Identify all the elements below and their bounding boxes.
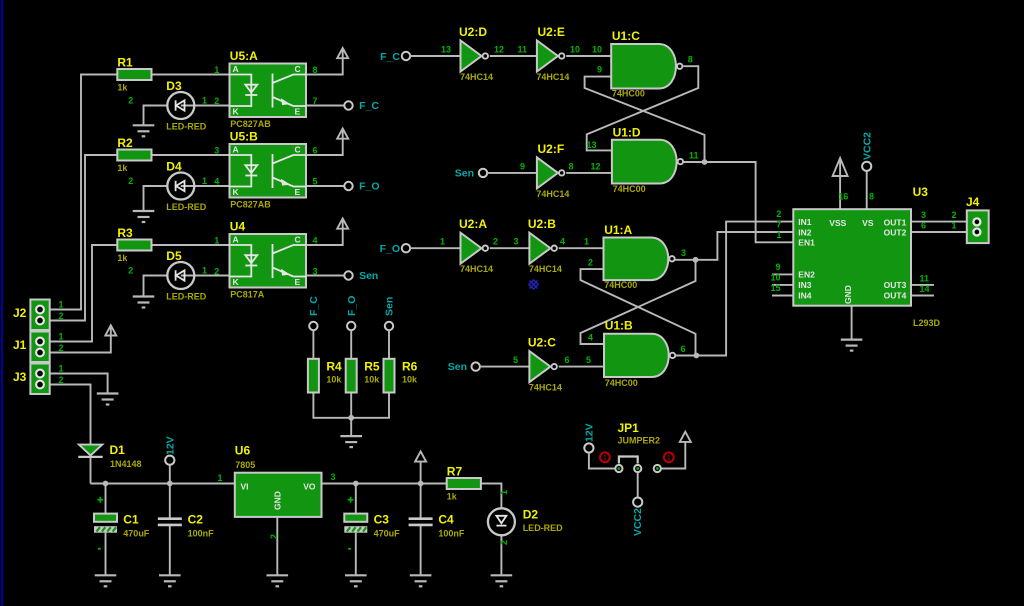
node Sen input pin 2 bbox=[472, 362, 480, 370]
svg-text:U1:A: U1:A bbox=[604, 223, 632, 237]
node F_C input pin bbox=[402, 52, 410, 60]
svg-text:PC827AB: PC827AB bbox=[230, 119, 271, 129]
svg-text:2: 2 bbox=[952, 210, 957, 220]
wire U2:C to U1:B pin5 bbox=[559, 366, 604, 368]
junction bbox=[418, 481, 424, 487]
svg-text:IN3: IN3 bbox=[798, 280, 812, 290]
node Sen bbox=[344, 271, 352, 279]
wire U1:C pin8 to U1:D pin13 bbox=[587, 66, 699, 150]
svg-text:2: 2 bbox=[128, 96, 133, 106]
node Sen pullup pin bbox=[385, 322, 393, 330]
svg-text:8: 8 bbox=[688, 54, 693, 64]
wire U3 VSS to supply bbox=[839, 158, 841, 209]
svg-text:100nF: 100nF bbox=[438, 528, 465, 538]
svg-text:13: 13 bbox=[441, 45, 451, 55]
wire U1:B pin6 output bbox=[674, 355, 697, 357]
wire U2:B to U1:A pin1 bbox=[559, 247, 604, 249]
svg-text:LED-RED: LED-RED bbox=[166, 122, 206, 132]
supply symbol bbox=[833, 158, 848, 176]
wire 12V rail bbox=[91, 483, 235, 485]
wire C2 to ground bbox=[169, 526, 171, 576]
svg-text:R6: R6 bbox=[402, 359, 418, 373]
svg-text:F_O: F_O bbox=[359, 181, 379, 193]
svg-text:A: A bbox=[233, 145, 239, 155]
wire U2:A to U2:B bbox=[490, 247, 530, 249]
wire U1:B output to U3 IN1 bbox=[696, 222, 793, 356]
optocoupler U5:B bbox=[230, 129, 307, 209]
U3 left pin number labels bbox=[776, 209, 781, 240]
svg-text:LED-RED: LED-RED bbox=[523, 523, 563, 533]
svg-text:U1:C: U1:C bbox=[612, 29, 640, 43]
node F_C pullup pin bbox=[309, 322, 317, 330]
svg-text:E: E bbox=[295, 187, 301, 197]
U4 pin labels bbox=[214, 236, 317, 277]
wire D5 to U4 pin K bbox=[181, 275, 230, 277]
supply symbol bbox=[105, 325, 116, 335]
svg-text:74HC14: 74HC14 bbox=[529, 383, 562, 393]
wire U1:C pin9 latch feedback bbox=[585, 77, 705, 162]
ground bbox=[267, 575, 289, 586]
svg-text:C3: C3 bbox=[374, 512, 390, 526]
svg-text:74HC14: 74HC14 bbox=[536, 189, 569, 199]
svg-text:U1:D: U1:D bbox=[613, 126, 641, 140]
svg-text:4: 4 bbox=[313, 236, 318, 246]
svg-text:15: 15 bbox=[770, 283, 780, 293]
svg-text:6: 6 bbox=[565, 355, 570, 365]
svg-text:2: 2 bbox=[214, 267, 219, 277]
wire Sen pin to R6 bbox=[388, 330, 390, 359]
wire U1:A pin2 latch feedback bbox=[581, 269, 696, 355]
wire F_O pin to U2:A bbox=[410, 247, 460, 249]
svg-text:4: 4 bbox=[214, 177, 219, 187]
node VCC2 jumper bbox=[633, 498, 642, 507]
svg-text:2: 2 bbox=[493, 237, 498, 247]
svg-text:5: 5 bbox=[586, 355, 591, 365]
ground bbox=[95, 575, 117, 586]
node 12V bbox=[165, 456, 174, 465]
wire Sen pin to U2:F bbox=[487, 172, 537, 174]
node F_C bbox=[344, 101, 352, 109]
svg-text:74HC00: 74HC00 bbox=[613, 184, 646, 194]
svg-text:1: 1 bbox=[584, 237, 589, 247]
svg-text:4: 4 bbox=[588, 333, 593, 343]
svg-text:1N4148: 1N4148 bbox=[110, 459, 142, 469]
svg-text:OUT1: OUT1 bbox=[884, 217, 907, 227]
NAND gate U1:A bbox=[604, 223, 675, 290]
inverter U2:A bbox=[459, 217, 493, 274]
svg-text:7: 7 bbox=[313, 96, 318, 106]
svg-text:D1: D1 bbox=[110, 443, 126, 457]
wire J2 pin1 to R1 bbox=[40, 75, 117, 310]
svg-text:Sen: Sen bbox=[384, 297, 396, 316]
wire U3 VS to VCC2 bbox=[866, 171, 868, 209]
svg-text:10: 10 bbox=[770, 272, 780, 282]
wire U1:B pin4 latch feedback bbox=[581, 260, 696, 344]
svg-text:6: 6 bbox=[681, 344, 686, 354]
wire R1 to U5:A pin A bbox=[152, 74, 230, 76]
svg-text:J1: J1 bbox=[13, 338, 27, 352]
node Sen input pin bbox=[479, 169, 487, 177]
svg-text:2: 2 bbox=[269, 534, 279, 539]
svg-text:74HC14: 74HC14 bbox=[460, 72, 493, 82]
wire C1 to rail bbox=[105, 484, 107, 514]
svg-text:3: 3 bbox=[313, 267, 318, 277]
svg-text:74HC00: 74HC00 bbox=[612, 89, 645, 99]
optocoupler U4 bbox=[230, 219, 307, 299]
svg-text:R5: R5 bbox=[364, 359, 380, 373]
svg-text:3: 3 bbox=[331, 472, 336, 482]
ground bbox=[841, 340, 863, 351]
svg-text:JP1: JP1 bbox=[618, 421, 640, 435]
svg-text:C2: C2 bbox=[188, 512, 204, 526]
svg-text:5: 5 bbox=[513, 355, 518, 365]
wire U4 pin4 to supply bbox=[306, 219, 343, 246]
svg-text:1: 1 bbox=[59, 300, 64, 310]
svg-text:J4: J4 bbox=[966, 195, 980, 209]
svg-text:D5: D5 bbox=[166, 249, 182, 263]
inverter U2:E bbox=[536, 25, 569, 82]
J3 pin labels bbox=[59, 364, 64, 386]
wire U1:D output to U3 EN1 bbox=[705, 162, 794, 242]
svg-text:6: 6 bbox=[921, 221, 926, 231]
wire U6 VO rail to R7 bbox=[322, 483, 448, 485]
svg-text:R3: R3 bbox=[117, 226, 133, 240]
svg-text:2: 2 bbox=[588, 258, 593, 268]
wire U4 pin3 to Sen pin bbox=[306, 275, 344, 277]
LED D4 bbox=[166, 160, 206, 213]
svg-text:11: 11 bbox=[920, 273, 930, 283]
svg-text:VCC2: VCC2 bbox=[632, 508, 644, 536]
ground bbox=[159, 575, 181, 586]
svg-text:U5:A: U5:A bbox=[230, 49, 258, 63]
svg-text:2: 2 bbox=[128, 266, 133, 276]
svg-text:Sen: Sen bbox=[448, 361, 467, 373]
wire 12V to JP1 pin1 bbox=[589, 453, 615, 469]
wire U5:A pin8 to supply bbox=[306, 48, 343, 75]
svg-text:EN2: EN2 bbox=[798, 270, 815, 280]
ground bbox=[340, 436, 362, 447]
wire D5 cathode to ground bbox=[144, 276, 168, 297]
svg-text:1: 1 bbox=[202, 176, 207, 186]
svg-text:470uF: 470uF bbox=[374, 528, 401, 538]
wire U5:A pin7 to F_C pin bbox=[306, 105, 344, 107]
wire U3 OUT2 to J4 bbox=[911, 231, 967, 233]
wire F_C pin to R4 bbox=[312, 330, 314, 359]
wire C3 to rail bbox=[355, 484, 357, 514]
svg-text:12: 12 bbox=[591, 161, 601, 171]
junction bbox=[167, 481, 173, 487]
wire D2 to ground bbox=[500, 535, 502, 575]
svg-text:D4: D4 bbox=[166, 160, 182, 174]
svg-text:OUT2: OUT2 bbox=[884, 228, 907, 238]
origin marker bbox=[529, 280, 538, 289]
wire J1 pin2 to supply bbox=[40, 325, 111, 352]
wire F_O pin to R5 bbox=[350, 330, 352, 359]
svg-text:F_C: F_C bbox=[359, 100, 379, 112]
capacitor C4 bbox=[409, 512, 465, 538]
wire U5:B pin5 to F_O pin bbox=[306, 185, 344, 187]
NAND gate U1:D bbox=[612, 126, 683, 194]
svg-text:EN1: EN1 bbox=[798, 238, 815, 248]
svg-text:10: 10 bbox=[570, 45, 580, 55]
svg-text:1: 1 bbox=[214, 236, 219, 246]
svg-text:9: 9 bbox=[597, 65, 602, 75]
svg-text:1: 1 bbox=[499, 490, 509, 495]
svg-text:F_O: F_O bbox=[380, 243, 400, 255]
wire J1 pin1 to R3 bbox=[40, 245, 117, 342]
svg-text:IN2: IN2 bbox=[798, 227, 812, 237]
svg-text:C: C bbox=[295, 235, 301, 245]
svg-text:1k: 1k bbox=[117, 253, 128, 263]
junction bbox=[348, 415, 354, 421]
ground bbox=[345, 575, 367, 586]
J1 pin labels bbox=[59, 332, 64, 354]
svg-text:PC827AB: PC827AB bbox=[230, 199, 271, 209]
wire U3 OUT4 stub bbox=[911, 295, 934, 297]
wire U1:A pin3 output bbox=[673, 259, 695, 261]
svg-text:U2:B: U2:B bbox=[528, 217, 556, 231]
svg-text:8: 8 bbox=[569, 161, 574, 171]
svg-text:2: 2 bbox=[499, 540, 509, 545]
svg-text:PC817A: PC817A bbox=[230, 289, 265, 299]
NAND gate U1:C bbox=[611, 29, 682, 99]
node F_O input pin bbox=[402, 244, 410, 252]
svg-text:10k: 10k bbox=[402, 374, 418, 384]
wire U2:D to U2:E bbox=[490, 55, 537, 57]
svg-text:D3: D3 bbox=[166, 79, 182, 93]
junction bbox=[693, 257, 699, 263]
svg-text:12V: 12V bbox=[164, 436, 176, 455]
connector J1 bbox=[13, 332, 50, 363]
svg-text:9: 9 bbox=[520, 161, 525, 171]
NAND gate U1:B bbox=[604, 319, 675, 389]
resistor R6 bbox=[384, 359, 419, 393]
voltage regulator U6 bbox=[235, 444, 322, 517]
wire U5:B pin6 to supply bbox=[306, 129, 343, 156]
inverter U2:F bbox=[536, 142, 569, 199]
svg-text:VCC2: VCC2 bbox=[861, 132, 873, 160]
resistor R4 bbox=[308, 359, 343, 393]
svg-text:2: 2 bbox=[776, 209, 781, 219]
svg-text:R4: R4 bbox=[326, 359, 342, 373]
svg-text:1k: 1k bbox=[117, 163, 128, 173]
svg-text:1: 1 bbox=[59, 364, 64, 374]
jumper JP1 bbox=[615, 421, 661, 472]
svg-text:3: 3 bbox=[514, 237, 519, 247]
svg-text:74HC14: 74HC14 bbox=[460, 264, 493, 274]
wire J3 pin1 to ground bbox=[40, 374, 108, 394]
wire F_C pin to U2:D bbox=[410, 55, 460, 57]
svg-text:VS: VS bbox=[862, 218, 874, 228]
J2 pin labels bbox=[59, 300, 64, 322]
ground bbox=[410, 575, 432, 586]
svg-text:3: 3 bbox=[214, 146, 219, 156]
svg-text:3: 3 bbox=[921, 210, 926, 220]
ground bbox=[97, 394, 119, 405]
svg-text:GND: GND bbox=[843, 285, 853, 304]
svg-text:U3: U3 bbox=[913, 185, 929, 199]
svg-text:1k: 1k bbox=[117, 83, 128, 93]
U5:A pin labels bbox=[214, 65, 317, 106]
svg-text:11: 11 bbox=[518, 45, 528, 55]
svg-text:J3: J3 bbox=[13, 370, 27, 384]
svg-text:9: 9 bbox=[775, 262, 780, 272]
svg-text:16: 16 bbox=[838, 192, 848, 202]
supply symbol bbox=[337, 129, 348, 139]
svg-text:8: 8 bbox=[869, 192, 874, 202]
JP1 pad marker 1 bbox=[600, 452, 610, 462]
wire U3 EN2 stub bbox=[772, 273, 793, 275]
svg-text:74HC14: 74HC14 bbox=[536, 72, 569, 82]
svg-text:E: E bbox=[295, 107, 301, 117]
LED D3 bbox=[166, 79, 206, 132]
svg-text:E: E bbox=[295, 277, 301, 287]
svg-text:2: 2 bbox=[59, 375, 64, 385]
svg-text:2: 2 bbox=[214, 96, 219, 106]
wire C3 to ground bbox=[355, 533, 357, 576]
svg-text:12V: 12V bbox=[583, 423, 595, 442]
svg-text:U2:C: U2:C bbox=[528, 336, 556, 350]
node VCC2 bbox=[862, 162, 871, 171]
svg-text:11: 11 bbox=[689, 151, 699, 161]
inverter U2:D bbox=[459, 25, 493, 82]
wire 12V pin to rail bbox=[169, 465, 171, 484]
ground bbox=[133, 211, 155, 222]
wire R4 R5 R6 common to ground bbox=[313, 393, 389, 418]
supply symbol bbox=[337, 219, 348, 229]
wire R2 to U5:B pin A bbox=[152, 154, 230, 156]
svg-text:10: 10 bbox=[592, 45, 602, 55]
wire C1 to ground bbox=[105, 533, 107, 576]
svg-text:3: 3 bbox=[681, 248, 686, 258]
svg-text:13: 13 bbox=[586, 140, 596, 150]
svg-text:U5:B: U5:B bbox=[230, 129, 258, 143]
resistor R3 bbox=[117, 226, 151, 263]
svg-text:F_C: F_C bbox=[380, 51, 400, 63]
svg-text:1: 1 bbox=[217, 473, 222, 483]
svg-text:U1:B: U1:B bbox=[605, 319, 633, 333]
svg-text:10k: 10k bbox=[364, 374, 380, 384]
svg-text:7805: 7805 bbox=[235, 460, 255, 470]
svg-text:8: 8 bbox=[313, 65, 318, 75]
connector J4 bbox=[966, 195, 989, 243]
wire D4 cathode to ground bbox=[144, 186, 168, 211]
wire R5 to ground bbox=[350, 393, 352, 437]
svg-text:1: 1 bbox=[952, 221, 957, 231]
resistor R5 bbox=[346, 359, 381, 393]
supply symbol bbox=[337, 48, 348, 58]
svg-text:GND: GND bbox=[273, 491, 283, 510]
wire D1 cathode to 12V rail bbox=[90, 457, 92, 484]
junction bbox=[353, 481, 359, 487]
wire C4 to ground bbox=[420, 526, 422, 576]
svg-text:Sen: Sen bbox=[359, 270, 378, 282]
wire Sen pin to U2:C bbox=[480, 366, 530, 368]
wire U3 OUT3 stub bbox=[911, 284, 934, 286]
ground bbox=[491, 575, 513, 586]
ground bbox=[133, 125, 155, 136]
svg-text:A: A bbox=[233, 235, 239, 245]
svg-text:C4: C4 bbox=[438, 512, 454, 526]
svg-text:2: 2 bbox=[128, 176, 133, 186]
svg-text:R1: R1 bbox=[117, 56, 133, 70]
connector J2 bbox=[13, 300, 50, 331]
wire U3 GND to ground bbox=[851, 306, 853, 340]
node F_O bbox=[344, 182, 352, 190]
wire U1:D pin11 output bbox=[683, 161, 704, 163]
wire U2:E to U1:C pin10 bbox=[566, 55, 611, 57]
driver IC U3 bbox=[793, 185, 940, 328]
svg-text:J2: J2 bbox=[13, 306, 27, 320]
resistor R7 bbox=[447, 465, 481, 502]
junction bbox=[103, 481, 109, 487]
svg-text:F_O: F_O bbox=[346, 296, 358, 316]
svg-text:K: K bbox=[233, 107, 240, 117]
svg-text:1: 1 bbox=[776, 230, 781, 240]
svg-text:1: 1 bbox=[59, 332, 64, 342]
svg-text:6: 6 bbox=[313, 146, 318, 156]
wire JP1 pin2 to VCC2 bbox=[637, 473, 639, 498]
LED D2 bbox=[488, 508, 563, 536]
wire C4 top bbox=[420, 484, 422, 519]
svg-text:74HC14: 74HC14 bbox=[529, 264, 562, 274]
wire R3 to U4 pin A bbox=[152, 244, 230, 246]
svg-text:C: C bbox=[295, 64, 301, 74]
svg-text:1: 1 bbox=[202, 96, 207, 106]
svg-text:R7: R7 bbox=[447, 465, 463, 479]
svg-text:4: 4 bbox=[560, 237, 565, 247]
svg-text:K: K bbox=[233, 277, 240, 287]
svg-text:OUT4: OUT4 bbox=[884, 291, 907, 301]
resistor R2 bbox=[117, 136, 151, 173]
svg-text:LED-RED: LED-RED bbox=[166, 202, 206, 212]
svg-text:C1: C1 bbox=[123, 512, 139, 526]
supply symbol bbox=[415, 451, 426, 461]
svg-text:1: 1 bbox=[214, 65, 219, 75]
svg-text:U2:E: U2:E bbox=[538, 25, 565, 39]
U5:B pin labels bbox=[214, 146, 317, 187]
svg-text:JUMPER2: JUMPER2 bbox=[618, 436, 661, 446]
svg-text:1k: 1k bbox=[447, 492, 458, 502]
junction bbox=[694, 353, 700, 359]
wire J3 pin2 to D1 anode bbox=[40, 385, 91, 445]
svg-text:VI: VI bbox=[241, 482, 249, 492]
capacitor C3 bbox=[344, 497, 400, 549]
svg-text:470uF: 470uF bbox=[123, 528, 150, 538]
diode D1 bbox=[78, 443, 141, 469]
svg-text:1: 1 bbox=[202, 266, 207, 276]
wire supply above C4 bbox=[420, 462, 422, 484]
svg-text:7: 7 bbox=[776, 220, 781, 230]
svg-text:74HC00: 74HC00 bbox=[605, 378, 638, 388]
svg-text:Sen: Sen bbox=[455, 167, 474, 179]
svg-text:2: 2 bbox=[59, 311, 64, 321]
svg-text:C: C bbox=[295, 145, 301, 155]
svg-text:12: 12 bbox=[494, 45, 504, 55]
JP1 pad marker 2 bbox=[664, 452, 674, 462]
svg-text:10k: 10k bbox=[326, 374, 342, 384]
svg-text:LED-RED: LED-RED bbox=[166, 292, 206, 302]
U6 pin labels bbox=[217, 472, 335, 483]
wire R7 to D2 bbox=[480, 484, 501, 509]
wire U3 IN3 stub bbox=[772, 284, 793, 286]
inverter U2:C bbox=[528, 336, 562, 393]
svg-text:14: 14 bbox=[920, 284, 930, 294]
svg-text:U4: U4 bbox=[230, 219, 246, 233]
wire J2 pin2 to R2 bbox=[40, 155, 117, 321]
svg-text:U2:F: U2:F bbox=[538, 142, 565, 156]
inverter U2:B bbox=[528, 217, 562, 274]
